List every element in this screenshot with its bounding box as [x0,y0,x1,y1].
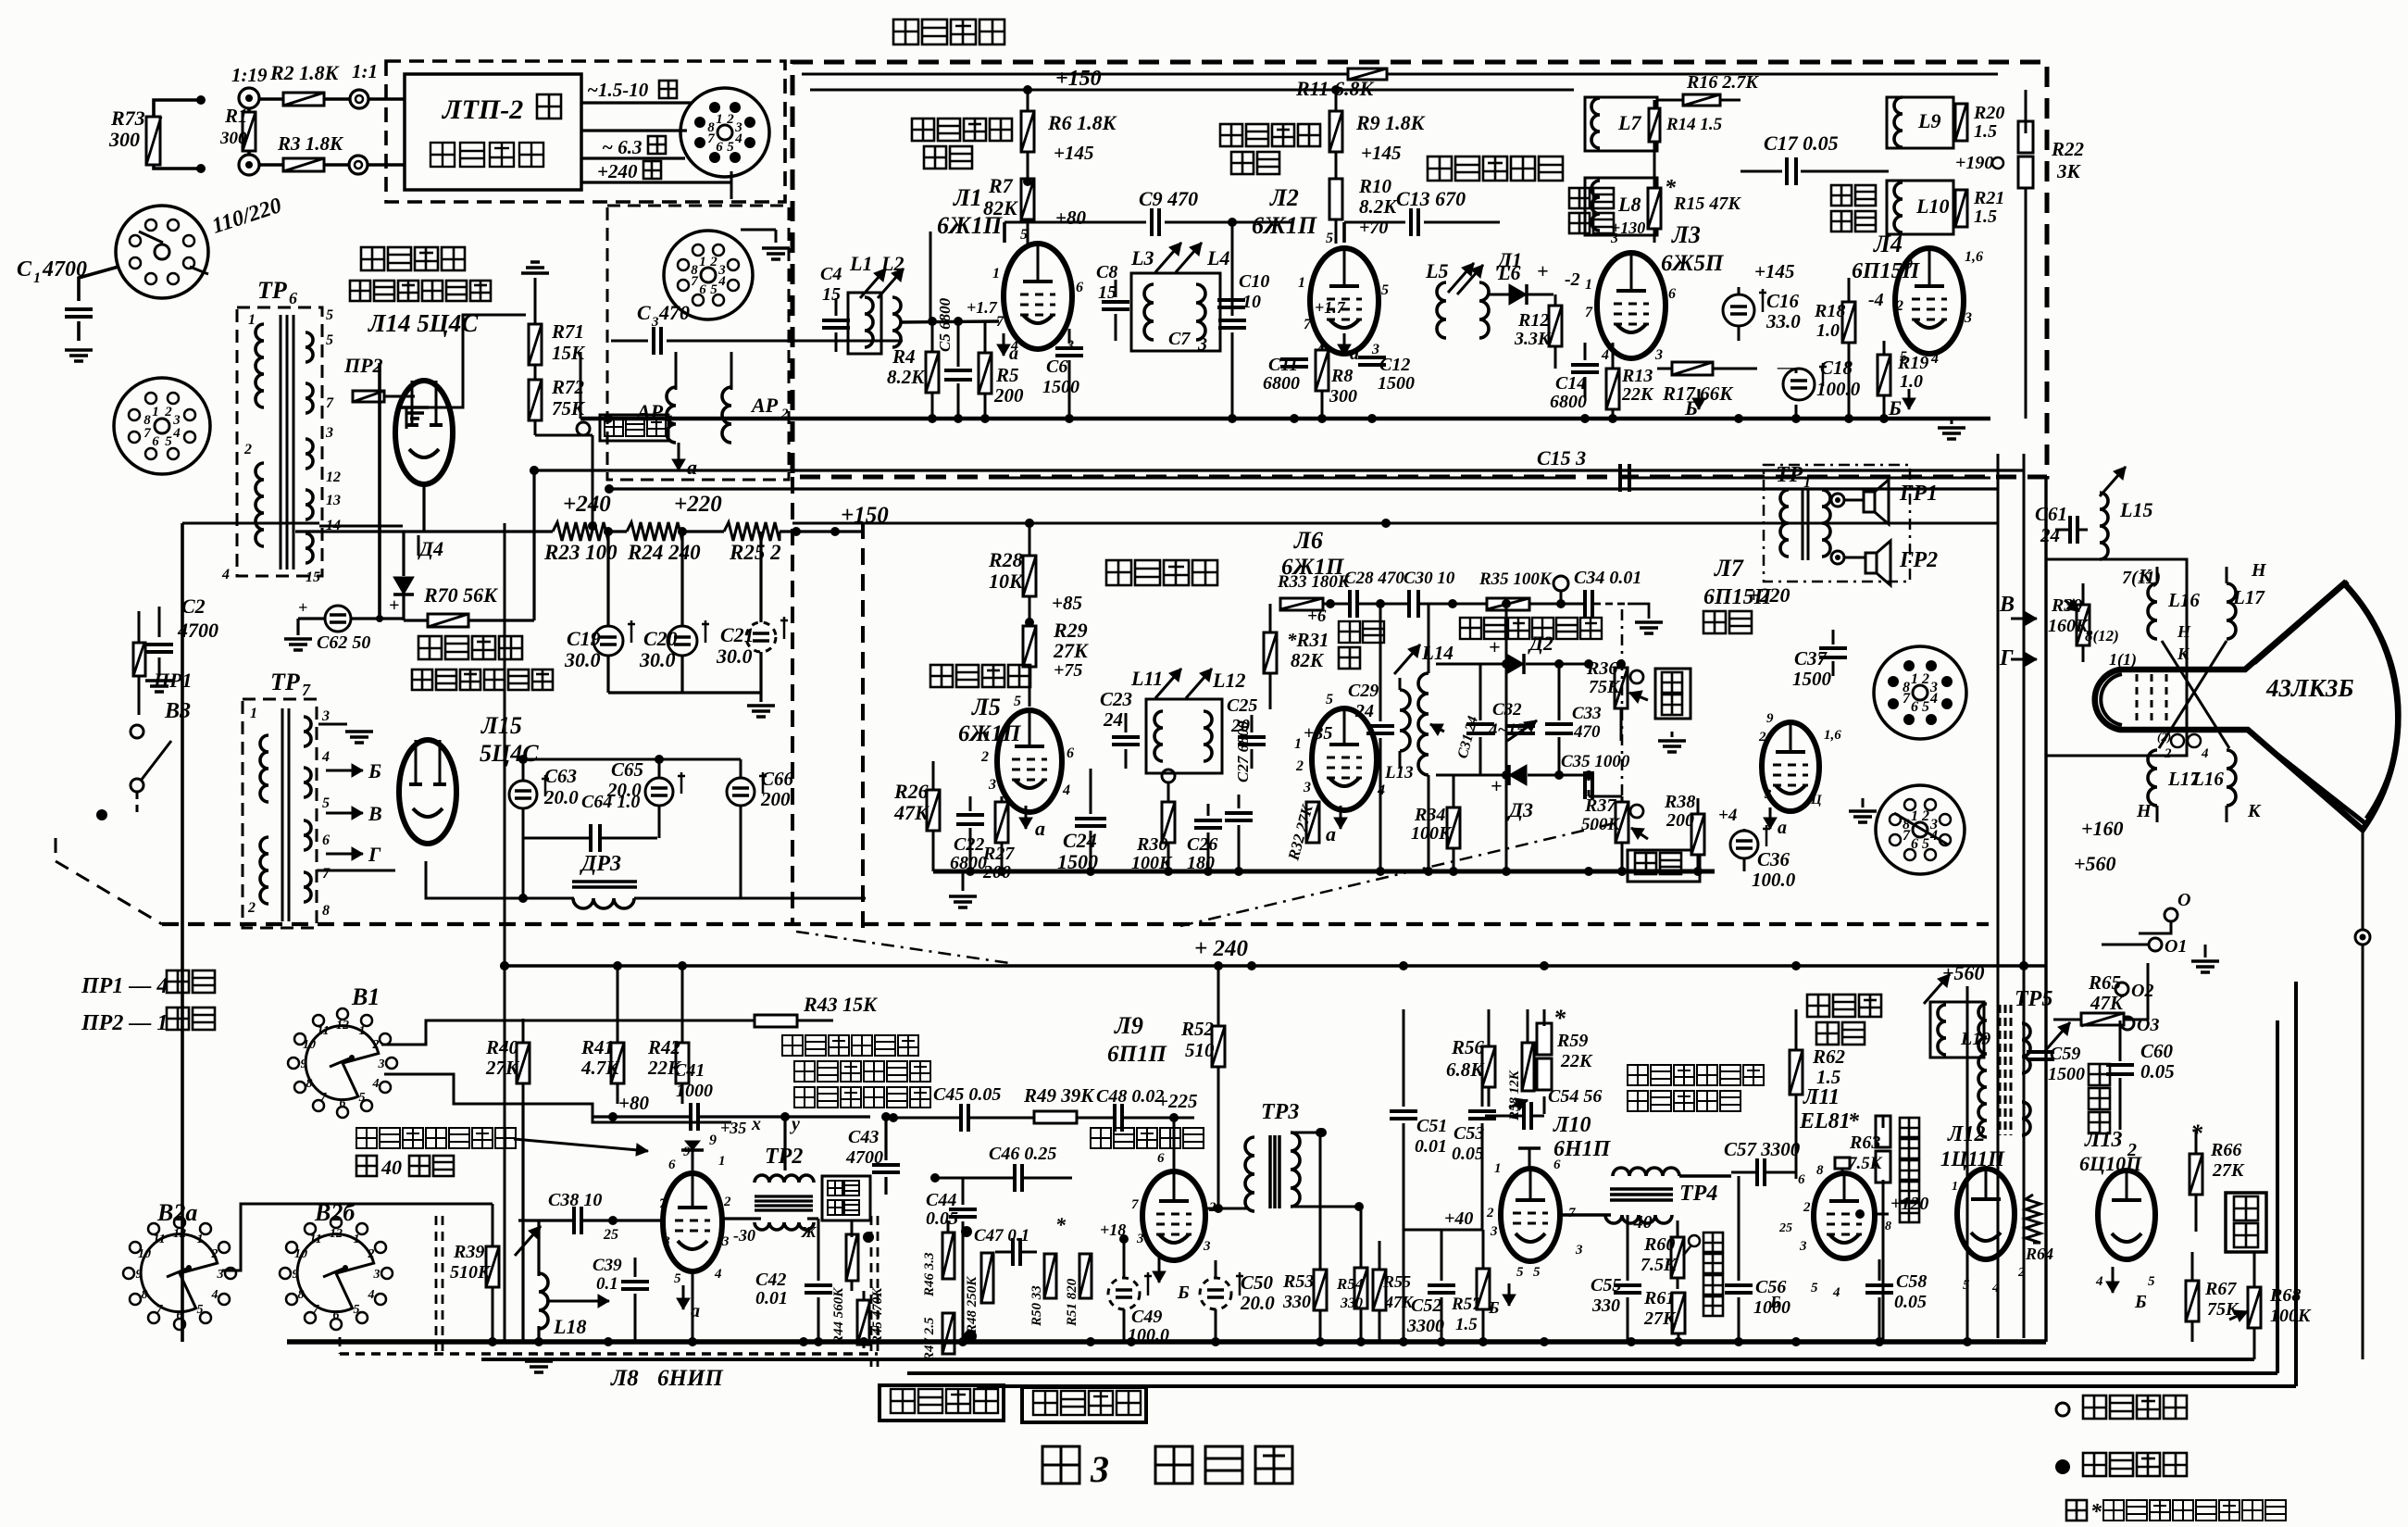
svg-text:R61: R61 [1643,1288,1675,1308]
svg-text:*R31: *R31 [1287,629,1329,651]
capacitor C48 0.02 [1096,1086,1194,1132]
label 第二本地振荡频 [356,1128,516,1148]
resistor R22 3K [2018,90,2085,419]
label +240 [563,492,611,517]
dashed box tuner ЛТП-2 [386,61,785,202]
arrow a Л5 [1019,806,1045,840]
svg-text:C: C [637,301,651,324]
svg-text:1: 1 [33,270,41,286]
svg-text:L16: L16 [2167,589,2200,611]
svg-text:Г: Г [368,843,381,866]
capacitor C43 4700 [845,1117,900,1195]
svg-text:L8: L8 [1617,193,1641,216]
resistor R4 8.2K [887,321,939,419]
svg-text:12: 12 [173,1227,186,1241]
junction dots sound bus [966,867,1703,876]
svg-text:6.8K: 6.8K [1446,1058,1485,1081]
svg-text:Б: Б [1177,1283,1190,1303]
terminal O [2139,890,2190,933]
svg-text:5: 5 [727,140,734,155]
dashed diagonal [56,861,162,924]
dashed box video channel 影象通道 [792,62,2047,477]
tube Л7 6П15П [1758,711,1841,811]
svg-text:6: 6 [340,1096,346,1110]
svg-text:4: 4 [1601,347,1609,363]
resistor R14 1.5 [1649,100,1723,157]
svg-text:+220: +220 [1748,583,1790,607]
svg-text:25: 25 [1778,1221,1792,1235]
svg-text:Л4: Л4 [1873,231,1903,257]
svg-text:6НИП: 6НИП [657,1366,724,1391]
svg-text:2: 2 [2127,1140,2137,1160]
svg-text:C18: C18 [1820,357,1853,379]
label +6 [1307,607,1327,626]
svg-text:C19: C19 [567,627,601,650]
svg-text:C58: C58 [1896,1271,1927,1292]
svg-text:470: 470 [1573,722,1601,742]
svg-text:6: 6 [668,1158,676,1172]
svg-text:R70 56K: R70 56K [423,583,498,607]
svg-text:C28 470: C28 470 [1344,569,1404,588]
svg-text:TP4: TP4 [1679,1182,1717,1206]
diode Д3 [1436,765,1593,821]
fuse ПР2 [343,354,415,402]
capacitor C54 56 [1485,1086,1602,1130]
arrow a Л7 [1764,807,1787,838]
svg-text:Н: Н [2177,622,2191,641]
svg-text:R1: R1 [224,105,248,127]
svg-text:6: 6 [289,289,297,307]
svg-text:0.1: 0.1 [596,1274,618,1294]
svg-text:TP2: TP2 [765,1145,803,1169]
arrow a AP1 [672,443,697,479]
svg-text:+240: +240 [563,492,611,517]
svg-text:27K: 27K [1053,639,1089,662]
wire +240伏 [581,160,731,182]
svg-text:15: 15 [822,284,841,305]
svg-text:+35: +35 [1304,723,1332,744]
svg-text:C53: C53 [1454,1123,1484,1144]
resistor R70 56K [404,470,534,627]
svg-text:27K: 27K [485,1057,520,1079]
wire right vertical 2210 [2044,477,2047,1342]
svg-text:7: 7 [659,1196,667,1211]
svg-text:EL81: EL81 [1799,1109,1851,1133]
svg-text:R62: R62 [1812,1045,1846,1068]
ground [65,350,93,361]
svg-text:Л10: Л10 [1553,1113,1591,1137]
svg-text:a: a [1009,344,1018,364]
svg-text:TP: TP [257,277,288,304]
svg-text:К: К [2138,566,2152,586]
svg-text:1Ц11П: 1Ц11П [1940,1147,2005,1170]
label 行扫描振荡 [1628,1091,1740,1111]
svg-text:L16: L16 [2191,768,2224,790]
capacitor C16 33.0 [1723,287,1801,341]
wire +150 bus video [810,67,1574,94]
svg-text:Л9: Л9 [1114,1012,1143,1039]
junction dots video bus [604,414,1889,423]
wire LTP supply down [376,363,383,622]
wire TP6 to rectifier [319,482,403,526]
svg-text:5: 5 [359,1091,366,1105]
svg-text:*: * [1553,1005,1566,1032]
svg-text:Л5: Л5 [971,694,1001,720]
potentiometer R68 100K [2229,1252,2312,1359]
capacitor C50 20.0 [1200,1260,1275,1342]
svg-text:C: C [17,257,32,282]
label 限幅器 [1339,621,1384,669]
svg-text:C35 1000: C35 1000 [1561,752,1630,771]
svg-text:R45 470K: R45 470K [870,1287,885,1346]
capacitor C24 1500 [1057,769,1106,873]
svg-text:5: 5 [1381,282,1389,298]
svg-text:Б: Б [2134,1292,2147,1312]
wire osc row [523,1104,731,1122]
svg-text:3: 3 [1764,787,1772,802]
wire B1 row2 [384,1074,523,1104]
svg-text:0.01: 0.01 [1415,1136,1447,1157]
wire socket tuner down [730,171,733,199]
svg-text:8: 8 [707,120,715,135]
svg-text:10: 10 [138,1247,151,1261]
svg-text:C48 0.02: C48 0.02 [1096,1086,1164,1107]
svg-text:9: 9 [1766,711,1774,726]
label 43ЛК3Б [2265,674,2354,702]
svg-text:2: 2 [1803,1200,1811,1215]
ground left of socket B [1849,798,1877,822]
capacitor C34 0.01 [1568,568,1641,618]
junction dots +240 bus [500,961,2028,970]
resistor R9 1.8K [1329,90,1426,178]
svg-text:7: 7 [313,1303,320,1317]
svg-text:4: 4 [1832,1285,1840,1300]
svg-text:10: 10 [1242,292,1261,312]
svg-text:Д2: Д2 [1528,632,1553,655]
knob 水平同步 [1683,1233,1723,1316]
capacitor C47 0.1 [974,1226,1037,1266]
resistor R18 1.0 [1814,278,1855,419]
tube Л4 6П15П [1852,231,1983,367]
svg-text:+: + [1537,259,1549,282]
svg-text:1:19: 1:19 [231,64,268,86]
svg-text:L18: L18 [553,1315,586,1338]
svg-text:6: 6 [1911,699,1918,715]
potentiometer R37 500K [1581,795,1648,871]
capacitor C58 0.05 [1865,1259,1927,1342]
svg-text:a: a [1778,818,1787,838]
svg-text:C4: C4 [820,264,842,284]
svg-text:C20: C20 [643,627,678,650]
socket 8-pin A [1874,646,1966,739]
junction dots bottom bus [488,1337,1972,1346]
label B arrow [1999,593,2037,625]
svg-text:C26: C26 [1187,834,1217,855]
svg-text:L5: L5 [1425,259,1448,282]
svg-text:100.0: 100.0 [1752,869,1796,891]
wire mid-left vertical bus [500,523,509,1342]
resistor R30 100K [1131,782,1175,873]
svg-text:C51: C51 [1416,1116,1447,1136]
terminal O3 [2121,1015,2159,1035]
label +220 (Л7) [1748,583,1790,607]
svg-text:20.0: 20.0 [543,786,579,808]
svg-text:1: 1 [248,312,256,328]
terminal O2 [2115,981,2153,1001]
block ЛТП-2 高频部分 [405,74,581,190]
svg-text:R73: R73 [110,106,145,130]
label +145 a [1054,142,1093,164]
ground at ПР2 [401,407,429,419]
trimmer arrows L1 L2 [860,269,904,298]
capacitor C14 6800 [1550,343,1599,412]
svg-text:3: 3 [1136,1232,1144,1246]
svg-text:C21: C21 [720,623,755,646]
svg-text:3300: 3300 [1406,1316,1444,1336]
transformer TP7 [243,669,331,928]
tap В [326,802,382,825]
svg-text:*: * [1055,1213,1067,1236]
svg-text:5: 5 [1516,1265,1524,1280]
capacitor C4 15 [820,264,850,352]
wire Л14 output [418,535,420,556]
frame around yoke area [2046,559,2187,756]
svg-text:3.3K: 3.3K [1514,329,1552,349]
dashed stub left [55,838,57,861]
svg-text:4: 4 [714,1267,722,1282]
wire bottom bus 4 [977,982,2296,1386]
label 率40兆周 [356,1156,454,1179]
svg-text:12: 12 [336,1019,349,1033]
svg-text:+1.7: +1.7 [1315,298,1346,317]
transformer TP4 [1560,1168,1731,1223]
coil L10 box [1887,181,1953,234]
svg-text:C8: C8 [1096,262,1117,282]
svg-text:4: 4 [211,1288,218,1302]
svg-text:ЛТП-2: ЛТП-2 [441,94,523,125]
svg-text:6: 6 [1076,280,1083,295]
svg-text:7: 7 [1568,1206,1576,1220]
svg-text:330: 330 [1282,1292,1311,1312]
resistor R56 6.8K [1446,1009,1495,1107]
svg-text:R49 39K: R49 39K [1023,1084,1095,1107]
svg-text:C23: C23 [1100,688,1132,710]
svg-text:R8: R8 [1330,366,1353,386]
svg-text:8.2K: 8.2K [1359,195,1398,218]
svg-text:1.5: 1.5 [1974,207,1997,227]
wire ~6.3伏 [581,131,687,158]
svg-text:1: 1 [250,706,257,721]
svg-text:+80: +80 [1055,207,1086,229]
svg-text:R59: R59 [1556,1031,1588,1051]
svg-text:9: 9 [136,1268,143,1282]
svg-text:R63: R63 [1849,1133,1880,1153]
svg-text:C5 6800: C5 6800 [936,297,954,352]
coil L7 box [1585,97,1657,151]
svg-text:2: 2 [368,1247,375,1261]
svg-text:R18: R18 [1814,301,1845,321]
label Л10 6Н1П [1553,1113,1612,1161]
resistor R57 1.5 [1404,1208,1490,1342]
svg-text:1:1: 1:1 [352,60,378,82]
svg-text:1: 1 [1803,475,1811,491]
socket tuner plug [680,88,769,177]
resistor R13 22K [1606,343,1654,419]
terminal 1:1 [350,60,405,108]
capacitor C12 1500 [1358,355,1415,394]
svg-text:L7: L7 [1617,111,1641,134]
ground power caps [747,693,775,717]
svg-text:+70: +70 [1359,218,1388,238]
svg-text:5: 5 [1811,1281,1818,1295]
potentiometer R47 2.5 [922,1313,977,1362]
svg-text:6: 6 [1157,1151,1165,1166]
svg-text:C54 56: C54 56 [1548,1086,1602,1107]
svg-text:O2: O2 [2131,981,2153,1001]
dashed border left mid [791,477,794,924]
label +1.7 a [967,298,1018,364]
label 电源整流 (高中频部分) [350,247,491,337]
capacitor C27 6800 [1225,720,1253,871]
svg-text:5: 5 [2148,1274,2155,1289]
label +1.7 b [1315,298,1359,364]
transformer TP5 [1978,987,2052,1137]
svg-text:ПР2 — 1: ПР2 — 1 [81,1011,168,1035]
svg-text:7: 7 [143,426,151,441]
svg-text:R71: R71 [551,320,584,343]
svg-text:+80: +80 [618,1092,649,1114]
svg-text:-4: -4 [1868,290,1884,310]
svg-text:5: 5 [1900,349,1907,365]
dashed border bottom [162,922,1989,926]
resistor R42 22K [647,966,689,1104]
svg-text:Б: Б [1488,1298,1499,1317]
rotary switch В1 [288,983,397,1118]
svg-text:160K: 160K [2048,616,2090,636]
svg-text:300: 300 [108,128,140,151]
IF transformer L11 L12 [1130,667,1245,773]
svg-text:Н: Н [2251,560,2267,581]
svg-text:2: 2 [1921,671,1929,687]
svg-text:R65: R65 [2088,971,2121,994]
wire 150 into video left [792,89,810,91]
socket 8-pin B (switch) [1876,785,1965,874]
svg-text:47K: 47K [2090,992,2125,1014]
svg-text:8: 8 [1816,1163,1824,1178]
resistor R50 33 [1029,1213,1067,1327]
label 行扫描输出 [1807,995,1881,1045]
wire +240 from power to bus [865,526,867,928]
wire feed +240 upper [530,466,2024,475]
svg-text:L3: L3 [1130,246,1154,269]
svg-text:1: 1 [1911,808,1918,824]
label +85 [1052,592,1082,614]
svg-text:R16 2.7K: R16 2.7K [1686,72,1759,93]
resistor R48 250K [961,1226,993,1334]
svg-text:+75: +75 [1054,660,1082,681]
diode Д4 [389,532,443,620]
svg-text:Н: Н [2136,801,2152,821]
legend note [2066,1500,2286,1524]
svg-text:C49: C49 [1131,1307,1162,1327]
ground above R71 [491,262,549,280]
svg-text:25: 25 [603,1227,618,1243]
arrow to Л8 [514,1139,648,1156]
svg-text:R58 12K: R58 12K [1507,1070,1522,1121]
svg-text:1: 1 [1911,671,1918,687]
svg-text:6: 6 [1067,745,1074,761]
label 影象检波器 [1428,156,1563,181]
svg-text:R53: R53 [1282,1271,1314,1292]
wire video in bus [668,319,903,341]
label +80 a [1055,207,1086,229]
svg-text:10K: 10K [989,569,1024,593]
svg-text:2: 2 [1758,730,1766,745]
capacitor C56 1000 [1725,1176,1790,1342]
svg-text:0.05: 0.05 [2140,1060,2175,1083]
rotary switch В2б [280,1199,393,1330]
svg-text:R21: R21 [1973,188,2004,208]
svg-text:R41: R41 [580,1036,614,1058]
svg-text:5: 5 [710,282,717,297]
diode Д2 [1436,632,1593,674]
svg-text:6: 6 [1798,1172,1805,1187]
socket IF input [664,231,753,319]
tube Л5 6Ж1П [958,694,1074,812]
svg-text:C34 0.01: C34 0.01 [1574,568,1641,588]
svg-text:27K: 27K [1643,1308,1677,1329]
svg-text:C60: C60 [2140,1040,2174,1062]
svg-text:R60: R60 [1643,1234,1675,1255]
legend main knob [2056,1396,2187,1419]
label +190 [1955,153,2003,173]
svg-text:7: 7 [1131,1197,1139,1212]
svg-text:300: 300 [219,129,247,148]
svg-text:R38: R38 [1664,792,1695,812]
svg-text:TP: TP [1776,463,1803,487]
svg-text:C57 3300: C57 3300 [1724,1138,1801,1160]
svg-text:+4: +4 [1718,806,1737,825]
speaker ГР1 [1864,480,1938,524]
svg-text:5: 5 [1014,694,1021,709]
svg-text:4: 4 [1062,782,1070,798]
svg-text:1500: 1500 [2048,1064,2085,1084]
svg-text:ПР1 — 4: ПР1 — 4 [81,974,168,998]
svg-text:R55: R55 [1382,1272,1411,1291]
resistor R41 4.7K [580,966,624,1104]
resistor R38 200 [1658,732,1704,871]
svg-text:3: 3 [325,425,333,441]
resistor R27 200 [982,796,1015,882]
svg-text:Л7: Л7 [1714,555,1744,582]
capacitor C3 470 [611,301,704,355]
resistor R5 200 [979,321,1024,419]
svg-text:Ц: Ц [1810,793,1823,807]
svg-text:R46 3.3: R46 3.3 [922,1252,937,1297]
svg-text:5: 5 [197,1303,204,1317]
terminal test [1162,770,1175,782]
svg-text:1.0: 1.0 [1900,371,1923,392]
svg-text:R14 1.5: R14 1.5 [1666,115,1723,134]
wire caps bottom [608,652,761,693]
svg-text:Д3: Д3 [1507,798,1533,821]
svg-text:6800: 6800 [1263,373,1300,394]
capacitor C65 20.0 [606,758,685,838]
svg-text:C61: C61 [2035,503,2067,525]
svg-text:30.0: 30.0 [564,648,601,671]
svg-text:1: 1 [152,405,159,419]
svg-text:6: 6 [1911,836,1918,852]
